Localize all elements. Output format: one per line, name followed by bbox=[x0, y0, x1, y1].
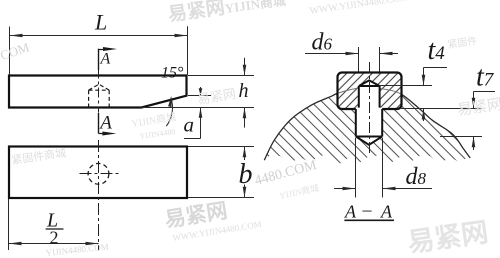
svg-text:A: A bbox=[98, 113, 112, 134]
svg-text:A: A bbox=[344, 202, 357, 222]
dimension a bbox=[184, 87, 212, 139]
svg-text:L: L bbox=[94, 10, 107, 35]
key side view outline (left upper view) bbox=[9, 76, 187, 108]
shaft cross-section hatched region bbox=[264, 87, 470, 163]
screw hole through key (d6) with conical top bbox=[359, 80, 380, 109]
hidden hole circle (dashed) in plan view bbox=[88, 163, 109, 184]
hidden screw hole (dashed) in side view bbox=[89, 84, 110, 107]
dimension L/2 bbox=[9, 199, 99, 250]
svg-text:a: a bbox=[184, 113, 195, 137]
section cut mark A (top) bbox=[99, 47, 118, 70]
centerline of hole (section view) bbox=[369, 62, 371, 156]
15 degree chamfer angle dimension bbox=[161, 65, 184, 127]
svg-text:A: A bbox=[380, 202, 393, 222]
hole in shaft (d8) with drill point bbox=[356, 108, 382, 145]
svg-text:2: 2 bbox=[50, 228, 59, 248]
centerline upper view bbox=[98, 69, 100, 113]
section title A - A bbox=[344, 200, 394, 222]
section cut mark A (bottom) bbox=[98, 113, 116, 136]
svg-text:b: b bbox=[239, 159, 253, 190]
dimension t7 bbox=[432, 62, 495, 151]
svg-text:A: A bbox=[100, 51, 111, 68]
dimension b bbox=[188, 147, 254, 198]
dimension d6 bbox=[305, 30, 398, 72]
shaft outer surface arc bbox=[264, 94, 470, 161]
dimension h bbox=[142, 58, 255, 128]
dimension d8 bbox=[334, 138, 432, 198]
svg-text:–: – bbox=[362, 200, 373, 220]
centerlines lower view bbox=[80, 140, 122, 251]
svg-text:h: h bbox=[239, 80, 249, 102]
key plan view outline (left lower view) bbox=[9, 147, 187, 199]
dimension t4 bbox=[380, 35, 447, 121]
key cross-section (section A-A) bbox=[337, 73, 402, 110]
dimension L bbox=[10, 10, 188, 76]
svg-text:15°: 15° bbox=[161, 65, 184, 82]
